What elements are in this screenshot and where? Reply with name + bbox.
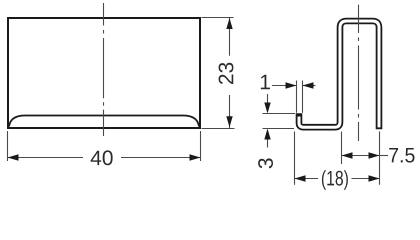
arrow left ((18))	[295, 175, 306, 181]
arrow right ((18))	[369, 175, 380, 181]
arrow up-pointing (3)	[264, 129, 270, 140]
arrow left (40)	[8, 154, 19, 160]
extension line right (shared (18)/7.5 dim)	[379, 132, 381, 185]
dimension line 23	[229, 18, 231, 56]
dimension line 7.5	[342, 155, 380, 157]
extension line left ((18) dim)	[294, 132, 296, 185]
label 1	[261, 75, 270, 89]
extension line right (40 dim)	[200, 131, 202, 161]
arrow left (7.5)	[342, 152, 353, 158]
side profile sheet outline	[299, 21, 379, 129]
dimension line 3	[267, 94, 269, 103]
side profile centerline	[358, 5, 360, 142]
arrow right (7.5)	[369, 152, 380, 158]
extension line left (40 dim)	[7, 131, 9, 161]
extension line left (7.5 dim)	[341, 132, 343, 165]
arrow down-pointing (3)	[264, 103, 270, 114]
label 3	[258, 158, 273, 168]
front view centerline	[103, 3, 105, 136]
front view outline (40x23 plate)	[8, 18, 200, 128]
dimension line 40	[8, 157, 83, 159]
front view bottom fold line	[9, 116, 199, 127]
extension lines (1 dim)	[296, 81, 298, 113]
dimension line 1	[272, 85, 297, 87]
arrow down (23)	[226, 116, 232, 127]
label 7.5	[389, 148, 414, 163]
dimension line (18)	[295, 178, 319, 180]
arrow up (23)	[226, 18, 232, 29]
label 40	[91, 150, 113, 165]
label (18)	[322, 170, 348, 190]
arrow right (40)	[190, 154, 201, 160]
arrow right-pointing (1)	[286, 82, 297, 88]
extension lines (3 dim)	[263, 113, 296, 115]
label 23	[219, 63, 234, 84]
extension line top (23 dim)	[202, 17, 234, 19]
extension line bottom (23 dim)	[202, 128, 235, 130]
arrow left-pointing (1)	[303, 82, 314, 88]
